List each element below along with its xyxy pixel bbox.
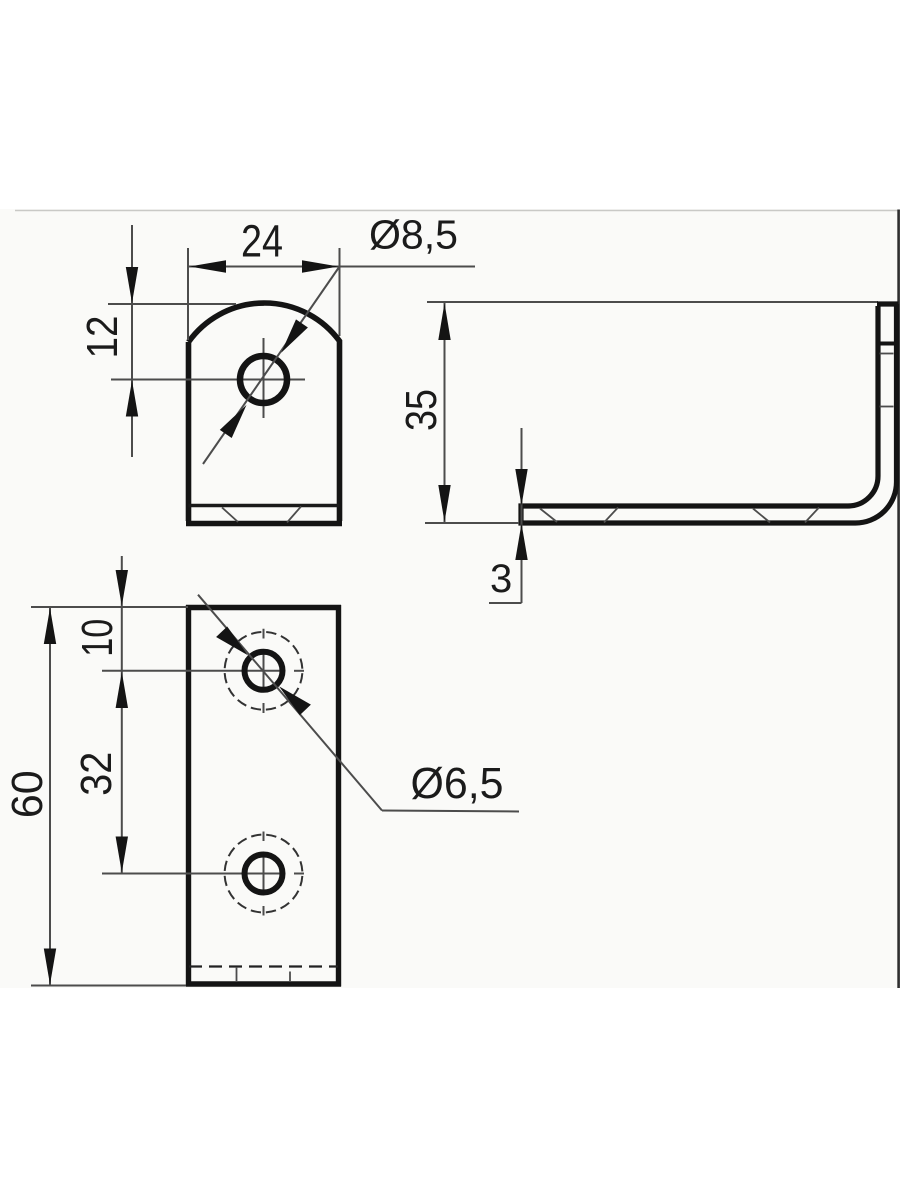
photo top border xyxy=(15,210,900,212)
view2 bend mark 3 xyxy=(753,509,770,523)
svg-text:10: 10 xyxy=(73,619,122,657)
hole Ø8.5 centerline vertical xyxy=(263,338,265,418)
svg-text:35: 35 xyxy=(397,389,446,431)
hole 2 Ø6.5 centerline horizontal xyxy=(102,873,280,875)
view1 bend mark right xyxy=(287,507,301,523)
dimension 24 : left extension line xyxy=(187,248,189,340)
svg-text:3: 3 xyxy=(490,557,512,601)
dimension 24 : right arrowhead xyxy=(302,260,339,272)
view2 bend mark 4 xyxy=(805,508,819,523)
photo background xyxy=(0,209,900,988)
leader Ø6.5 : shoulder line xyxy=(382,811,519,812)
view2 top extension line xyxy=(427,301,878,303)
view3 outline rectangle xyxy=(186,605,341,987)
view2 hidden hole edge lower xyxy=(880,406,894,408)
dimension 60 : top arrowhead xyxy=(44,608,56,644)
hole 1 dashed circle xyxy=(225,632,303,710)
photo right border xyxy=(897,210,900,989)
view1 bend line xyxy=(189,504,340,507)
view2 hidden hole edge upper xyxy=(880,353,894,355)
dimension 10 : top arrowhead xyxy=(116,570,128,606)
dimension 32 : bottom arrowhead xyxy=(116,837,128,873)
dimension 24 : right extension line xyxy=(339,248,341,336)
leader Ø6.5 : diagonal line xyxy=(198,595,382,811)
dimension 35 : top arrowhead xyxy=(438,303,450,340)
svg-text:24: 24 xyxy=(241,216,283,267)
dimension 12 : dim line xyxy=(131,225,133,457)
hole 1 Ø6.5 centerline horizontal xyxy=(102,670,280,672)
leader Ø8.5 : lower arrowhead xyxy=(220,405,247,438)
leader Ø6.5 : lower arrowhead xyxy=(279,686,311,715)
dimension 35 : bottom arrowhead xyxy=(438,485,450,522)
dimension 24 : left arrowhead xyxy=(190,260,227,272)
hole Ø8.5 centerline horizontal xyxy=(111,379,305,381)
dimension 12 : extension line top xyxy=(108,303,236,305)
dimension 10/32 : dim line xyxy=(121,556,123,874)
dimension 35 : dim line xyxy=(444,302,446,523)
view1 outline xyxy=(189,303,340,521)
dimension 3 : lower arrowhead xyxy=(515,524,527,561)
dimension 3 : upper arrowhead xyxy=(515,469,527,506)
hole 1 Ø6.5 circle xyxy=(245,652,283,690)
dimension 35 : bottom extension line xyxy=(425,522,519,524)
hole 2 centerline horizontal tick xyxy=(294,873,304,875)
dimension 60 : bottom extension line xyxy=(31,985,186,987)
svg-text:60: 60 xyxy=(3,770,52,818)
view2 bend mark 1 xyxy=(540,509,557,523)
dimension 60 : bottom arrowhead xyxy=(44,949,56,985)
dimension 10/60 : top extension line xyxy=(31,606,188,608)
view1 bottom edge xyxy=(186,521,342,527)
dimension 3 : dim line xyxy=(521,428,523,603)
leader Ø8.5 : shoulder line xyxy=(340,266,476,268)
svg-text:Ø8,5: Ø8,5 xyxy=(369,212,458,258)
hole 1 centerline vertical xyxy=(263,629,265,713)
dimension 12 : upper arrowhead xyxy=(126,267,138,303)
view3 tick 2 below bend line xyxy=(289,972,291,983)
dimension 3 : shoulder line xyxy=(489,602,522,604)
hole 2 Ø6.5 circle xyxy=(245,855,283,893)
leader Ø8.5 : upper arrowhead xyxy=(281,319,308,352)
leader Ø6.5 : upper arrowhead xyxy=(216,627,248,656)
svg-text:32: 32 xyxy=(72,752,121,796)
hole Ø8.5 circle xyxy=(240,356,287,403)
hole 2 dashed circle xyxy=(225,835,303,913)
dimension 24 : dim line xyxy=(188,266,340,268)
view2 outline xyxy=(521,304,899,523)
view3 tick 1 below bend line xyxy=(236,967,238,981)
svg-text:12: 12 xyxy=(78,316,127,359)
view1 bend mark left xyxy=(222,508,238,523)
hole 2 centerline vertical xyxy=(263,832,265,916)
view2 crossing line at leg top xyxy=(877,342,897,346)
dimension 12 : lower arrowhead xyxy=(126,381,138,417)
leader Ø8.5 : diagonal line xyxy=(203,267,340,465)
dimension 10/32 : shared up arrowhead xyxy=(116,672,128,708)
hole 1 centerline horizontal tick xyxy=(294,670,304,672)
svg-text:Ø6,5: Ø6,5 xyxy=(411,759,504,808)
view3 dashed bend line xyxy=(189,965,338,967)
view2 bend mark 2 xyxy=(604,508,618,523)
dimension 60 : dim line xyxy=(49,607,51,986)
